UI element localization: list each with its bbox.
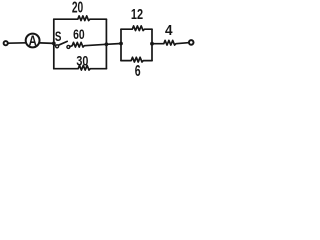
ammeter A [26, 34, 40, 48]
resistor R 12 [121, 26, 152, 31]
svg-text:20: 20 [72, 0, 83, 16]
switch S [54, 44, 56, 46]
svg-text:A: A [29, 32, 38, 49]
resistor R 20 [54, 16, 107, 21]
resistor R 4 [152, 40, 188, 45]
svg-text:30: 30 [76, 53, 88, 69]
terminal left [4, 41, 8, 45]
svg-text:60: 60 [73, 27, 85, 43]
resistor R 60 [70, 42, 107, 47]
node junction right of parallel pair [150, 42, 154, 46]
resistor R 6 [121, 57, 152, 62]
wire between sections [106, 43, 121, 46]
svg-text:6: 6 [135, 62, 141, 77]
wire [40, 42, 54, 45]
wire left side of box [53, 19, 55, 68]
node junction left box [52, 42, 56, 46]
svg-text:S: S [55, 28, 62, 44]
wire right side parallel pair [151, 29, 153, 60]
svg-text:12: 12 [131, 5, 143, 22]
wire right side of box [105, 19, 107, 68]
terminal right [189, 40, 194, 45]
wire left side parallel pair [120, 29, 122, 60]
node junction right of 60 [105, 42, 109, 46]
svg-text:4: 4 [165, 22, 173, 39]
resistor R 30 [54, 65, 107, 70]
node junction left of parallel pair [119, 42, 123, 46]
wire [8, 42, 26, 44]
